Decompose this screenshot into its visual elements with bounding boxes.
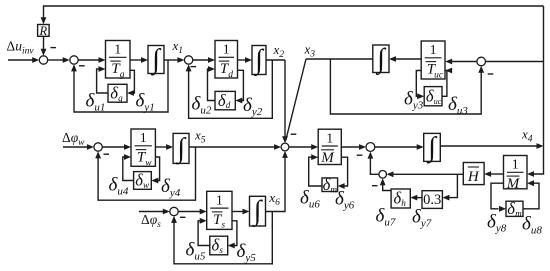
svg-text:w: w bbox=[145, 158, 152, 168]
arrowhead feedback into S6 bottom bbox=[95, 151, 101, 158]
arrowhead into block 1/Ts left lower bbox=[200, 218, 207, 224]
svg-text:1: 1 bbox=[326, 130, 333, 145]
arrowhead into S1 left bbox=[32, 57, 39, 63]
block 1/Tw bbox=[131, 129, 155, 168]
wire delta-uc to block 1/Tuc input bbox=[442, 71, 447, 97]
block 1/Td bbox=[215, 41, 238, 80]
wire S5 to block 1/M left bbox=[289, 146, 312, 148]
block delta-m2 bbox=[506, 199, 523, 218]
arrowhead into S4 bottom bbox=[478, 66, 484, 73]
summing junction S3 bbox=[184, 56, 192, 64]
wire x3 branch down and to S4 bottom bbox=[330, 59, 481, 114]
wire S3 to block 1/Td bbox=[193, 59, 209, 61]
svg-text:uc: uc bbox=[434, 70, 444, 80]
minus sign at S5 top input bbox=[291, 133, 297, 135]
wire S9 output to S7 bottom bbox=[370, 153, 379, 174]
arrowhead into block 1/M left lower bbox=[311, 154, 318, 160]
svg-text:M: M bbox=[320, 150, 335, 166]
feedback wire x2 to S3 bbox=[189, 60, 273, 118]
arrowhead into block 1/Ts bbox=[200, 209, 207, 215]
integrator I3uc bbox=[373, 43, 389, 75]
wire delta-h to lower sum S9 bottom bbox=[383, 180, 391, 191]
feedback wire x5 to S6 bbox=[98, 147, 195, 200]
arrowhead into block 1/M left bbox=[311, 144, 318, 150]
minus sign at S8 bottom feedback bbox=[180, 216, 186, 218]
svg-text:s: s bbox=[219, 245, 223, 255]
svg-text:1: 1 bbox=[512, 157, 519, 172]
minus sign at S4 bottom input bbox=[488, 73, 494, 75]
wire sum S4 to block 1/Tuc bbox=[451, 61, 477, 63]
svg-text:δ: δ bbox=[393, 189, 401, 208]
arrowhead into block H right bbox=[484, 171, 491, 177]
svg-text:1: 1 bbox=[114, 42, 121, 57]
summing junction S6 bbox=[94, 143, 102, 151]
wire top feedback from x4 line to R block bbox=[44, 6, 544, 18]
wire I1 to S3 with node x1 bbox=[164, 59, 178, 61]
arrowhead into block 1/Tw bbox=[124, 144, 131, 150]
wire delta-d to block 1/Td input bbox=[208, 69, 216, 101]
wire S8 to block 1/Ts bbox=[178, 211, 200, 213]
minus sign at S2 bottom feedback bbox=[79, 65, 85, 67]
wire x4 vertical to S4 bbox=[486, 61, 544, 63]
svg-text:H: H bbox=[467, 169, 480, 185]
wire delta-g to block 1/Tg input bbox=[97, 69, 108, 93]
arrowhead into S7 bottom bbox=[368, 152, 374, 159]
block 1/M left bbox=[318, 129, 341, 166]
arrowhead into integrator I2 bbox=[245, 57, 252, 63]
wire delta-m2 to block 1/M right input bbox=[523, 183, 539, 209]
wire S2 to block 1/Tg bbox=[78, 59, 99, 61]
svg-text:δ: δ bbox=[218, 91, 226, 110]
wire local loop block 1/Td output to delta-d bbox=[238, 70, 244, 100]
svg-text:δ: δ bbox=[135, 171, 143, 190]
arrowhead into integrator I6 bbox=[243, 209, 250, 215]
arrowhead feedback into S2 bottom bbox=[71, 64, 77, 71]
feedback wire x1 to S2 bbox=[74, 60, 168, 112]
arrowhead feedback into S8 bottom bbox=[171, 216, 177, 223]
block delta-g bbox=[108, 83, 127, 102]
wire S6 to block 1/Tw bbox=[102, 146, 125, 148]
wire x2 down to center sum S5 bbox=[284, 60, 286, 141]
summing junction S1 bbox=[39, 56, 47, 64]
wire local loop block 1/Tuc output to delta-uc bbox=[416, 71, 421, 97]
wire block 1/Tw to integrator I4 bbox=[155, 146, 167, 148]
block R bbox=[38, 24, 50, 38]
svg-text:1: 1 bbox=[223, 42, 230, 57]
block delta-h bbox=[391, 189, 410, 208]
arrowhead into S5 top bbox=[282, 136, 288, 143]
arrowhead into delta-m2 left bbox=[499, 206, 506, 212]
arrowhead into S7 left bbox=[359, 144, 366, 150]
arrowhead into delta-g right bbox=[127, 90, 134, 96]
block 1/Tuc bbox=[421, 41, 445, 80]
svg-text:d: d bbox=[228, 70, 233, 80]
block delta-w bbox=[134, 171, 152, 190]
arrowhead into S9 right bbox=[387, 171, 394, 177]
wire block 1/Td to integrator I2 bbox=[238, 59, 247, 61]
svg-text:1: 1 bbox=[140, 130, 147, 145]
arrowhead into block 0.3 right bbox=[442, 195, 449, 201]
block delta-uc bbox=[424, 86, 442, 105]
block delta-d bbox=[215, 91, 235, 110]
svg-text:δ: δ bbox=[212, 236, 220, 255]
wire input dphi_w to S6 bbox=[63, 146, 88, 148]
wire block 0.3 to delta-h bbox=[416, 197, 422, 199]
arrowhead into delta-s right bbox=[228, 243, 235, 249]
wire block 1/Tuc to integrator I3uc bbox=[395, 58, 421, 60]
feedback wire x6 to S8 bbox=[174, 212, 272, 264]
svg-text:M: M bbox=[506, 176, 521, 192]
arrowhead into S5 bottom bbox=[282, 151, 288, 158]
svg-text:g: g bbox=[120, 70, 125, 80]
integrator I1 bbox=[148, 44, 164, 76]
summing junction S7 bbox=[366, 143, 375, 152]
wire R block to summing junction S1 bbox=[43, 36, 45, 49]
arrowhead into block 1/Tg left lower bbox=[99, 66, 106, 72]
svg-text:1: 1 bbox=[430, 42, 437, 57]
block 1/Tg bbox=[106, 41, 131, 80]
block delta-m1 bbox=[322, 175, 338, 194]
arrowhead into block 1/Tuc right lower bbox=[445, 68, 452, 74]
arrowhead into block 1/Tw left lower bbox=[124, 154, 131, 160]
integrator I4 bbox=[173, 133, 189, 165]
wire I2 to x2 node bbox=[266, 59, 285, 61]
arrowhead into block 1/M right lower bbox=[527, 180, 534, 186]
wire S7 to integrator I5 bbox=[375, 146, 418, 148]
block delta-s bbox=[210, 236, 228, 255]
wire x6 from I6 up to center sum S5 bbox=[266, 153, 286, 212]
summing junction S8 bbox=[170, 207, 178, 215]
svg-text:1: 1 bbox=[216, 193, 223, 208]
summing junction S9 bbox=[379, 171, 387, 179]
wire diagonal x3 to center sum S5 bbox=[286, 59, 306, 141]
minus sign at S3 bottom feedback bbox=[191, 66, 197, 68]
arrowhead at x4 line end bbox=[537, 143, 544, 149]
arrowhead into block 1/Tuc right side bbox=[445, 59, 452, 65]
wire delta-m1 to block 1/M input bbox=[309, 157, 322, 186]
arrowhead into delta-d right bbox=[235, 98, 242, 104]
arrowhead into S3 left bbox=[177, 57, 184, 63]
arrowhead into integrator I1 bbox=[141, 57, 148, 63]
svg-text:s: s bbox=[221, 221, 225, 231]
arrowhead into delta-uc left bbox=[417, 93, 424, 99]
svg-text:δ: δ bbox=[323, 175, 331, 194]
summing junction S2 bbox=[70, 56, 78, 64]
svg-text:w: w bbox=[143, 180, 150, 190]
svg-text:g: g bbox=[118, 93, 123, 103]
wire block 1/Ts to integrator I6 bbox=[232, 211, 243, 213]
arrowhead into R block top bbox=[41, 17, 47, 24]
wire block H output to lower sum S9 bbox=[392, 173, 463, 175]
wire input du_inv to S1 bbox=[8, 59, 33, 61]
arrowhead into S6 left bbox=[87, 144, 94, 150]
block H bbox=[463, 163, 484, 186]
wire block 1/M to S7 bbox=[341, 146, 360, 148]
arrowhead into S1 top bbox=[41, 49, 47, 56]
arrowhead into delta-w right bbox=[151, 178, 158, 184]
svg-text:d: d bbox=[226, 100, 231, 110]
summing junction S5 center bbox=[281, 143, 289, 151]
arrowhead into integrator I4 bbox=[166, 144, 173, 150]
wire local loop block 1/Ts output to delta-s bbox=[232, 221, 237, 246]
wire local loop block 1/Tw output to delta-w bbox=[155, 157, 159, 181]
wire local loop block 1/M output to delta-m1 bbox=[341, 157, 347, 186]
block 0.3 bbox=[422, 191, 442, 209]
wire x4 from I5 to right vertical bbox=[440, 145, 537, 147]
minus sign at S7 bottom input bbox=[357, 154, 363, 156]
wire block 1/Tg to integrator I1 bbox=[130, 59, 142, 61]
minus sign at S6 bottom feedback bbox=[103, 153, 109, 155]
wire local loop block 1/Tg output to delta-g bbox=[130, 70, 134, 93]
wire x4 vertical right edge bbox=[533, 6, 544, 174]
svg-text:uc: uc bbox=[434, 97, 442, 106]
svg-text:R: R bbox=[38, 24, 47, 38]
arrowhead into S5 left bbox=[274, 144, 281, 150]
summing junction S4 bbox=[477, 57, 486, 66]
wire x3 from integrator I3uc to diagonal bbox=[306, 58, 373, 60]
integrator I5 bbox=[424, 132, 441, 164]
wire branch from H output down to block 0.3 bbox=[449, 174, 458, 197]
arrowhead feedback into S3 bottom bbox=[186, 64, 192, 71]
wire block 1/M right to block H bbox=[490, 173, 504, 175]
arrowhead into delta-h right bbox=[410, 195, 417, 201]
svg-text:δ: δ bbox=[110, 83, 118, 102]
wire local loop block 1/M right output to delta-m2 bbox=[491, 183, 504, 209]
block 1/M right bbox=[504, 156, 528, 193]
arrowhead into integrator I3uc right side bbox=[389, 56, 396, 62]
wire delta-s to block 1/Ts input bbox=[198, 221, 210, 246]
arrowhead into S8 left bbox=[163, 209, 170, 215]
svg-text:δ: δ bbox=[507, 199, 515, 218]
arrowhead into S2 left bbox=[63, 57, 70, 63]
svg-text:0.3: 0.3 bbox=[423, 192, 441, 208]
arrowhead into S9 bottom bbox=[380, 178, 386, 185]
svg-text:h: h bbox=[401, 198, 406, 208]
arrowhead into block 1/Td left lower bbox=[208, 66, 215, 72]
arrowhead into integrator I5 bbox=[417, 144, 424, 150]
arrowhead into block 1/M right side bbox=[527, 171, 534, 177]
arrowhead into block 1/Tg bbox=[99, 57, 106, 63]
wire S1 to S2 bbox=[48, 59, 64, 61]
wire delta-w to block 1/Tw input bbox=[123, 157, 134, 181]
minus sign at S9 bottom input bbox=[372, 185, 378, 187]
arrowhead into block 1/Td bbox=[208, 57, 215, 63]
integrator I2 bbox=[252, 45, 266, 77]
wire input dphi_s to S8 bbox=[139, 211, 164, 213]
svg-text:δ: δ bbox=[426, 86, 434, 105]
wire x5 from I4 to center sum S5 bbox=[189, 146, 275, 148]
minus sign at S1 top input bbox=[50, 47, 56, 49]
arrowhead into delta-m1 right bbox=[338, 183, 345, 189]
integrator I6 bbox=[250, 196, 266, 228]
block 1/Ts bbox=[207, 191, 232, 230]
